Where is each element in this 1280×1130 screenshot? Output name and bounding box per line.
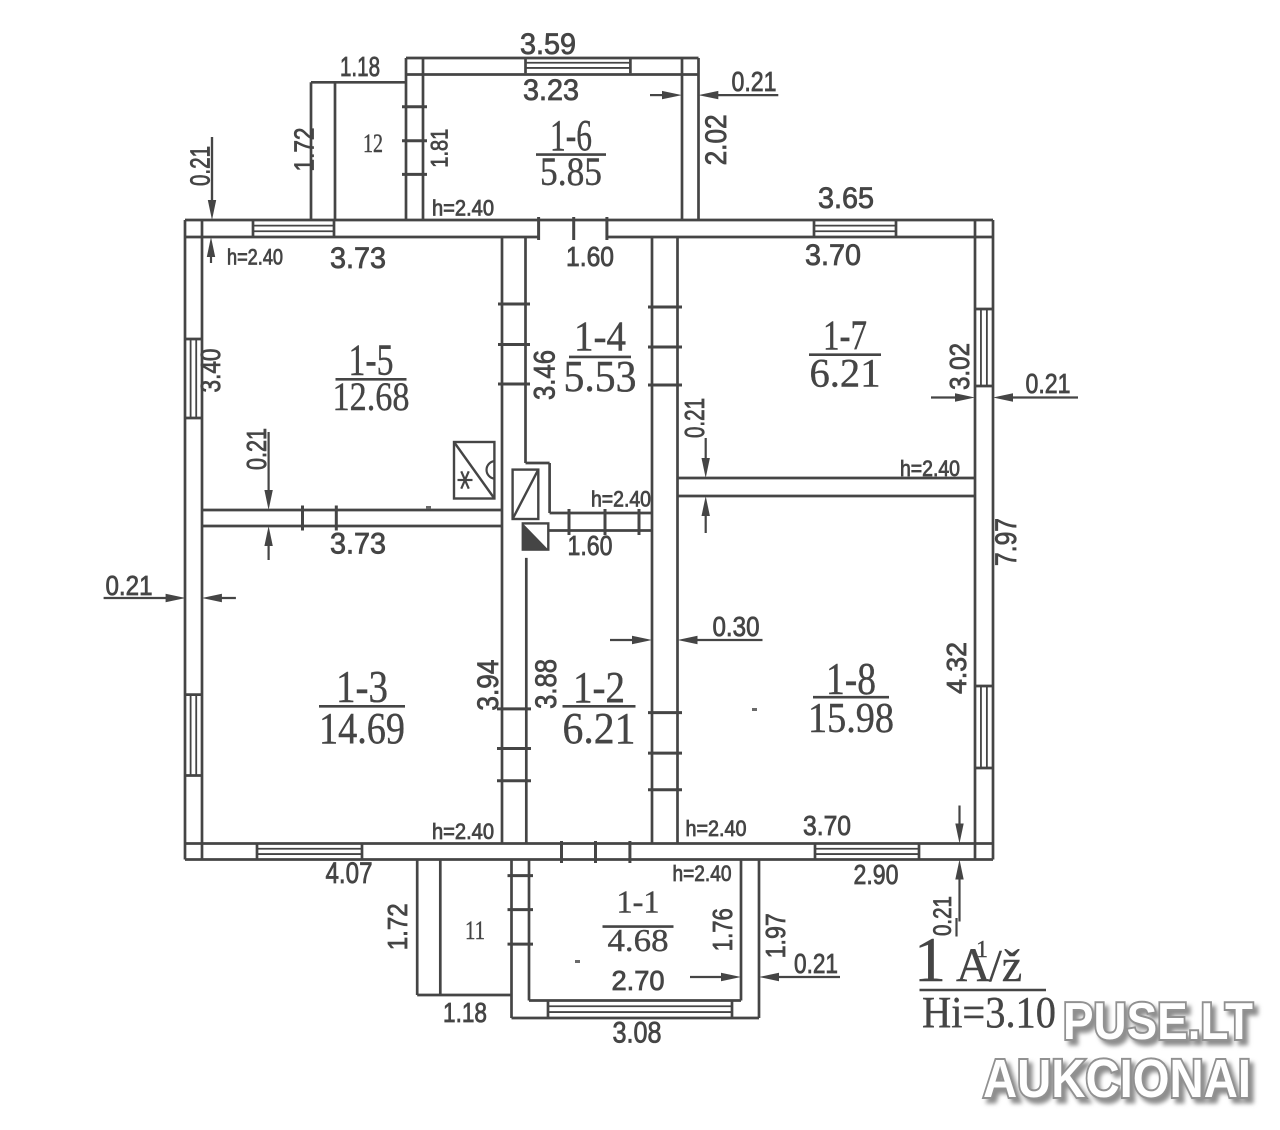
- legend 1 A1/z fraction: [914, 924, 1056, 1037]
- door ticks 1-1 in south wall: [562, 841, 630, 863]
- dim h=2.40 room1-7: [900, 456, 960, 481]
- svg-text:12.68: 12.68: [333, 374, 410, 419]
- door ticks wall 1-4/1-7: [648, 307, 682, 385]
- room 1-7 label: [809, 313, 881, 395]
- dim 3.70 room1-8 south: [803, 810, 851, 841]
- label 12 porch: [363, 129, 383, 158]
- svg-text:1-1: 1-1: [617, 884, 660, 920]
- dim 1.60 room1-2: [568, 530, 613, 561]
- label 11 porch: [465, 916, 485, 945]
- window west lower: [185, 695, 202, 776]
- svg-text:0.21: 0.21: [241, 428, 272, 470]
- dim 3.40 west: [195, 349, 226, 393]
- svg-text:h=2.40: h=2.40: [227, 245, 283, 270]
- wall right (house east wall): [975, 220, 993, 860]
- dim 0.21 top-left: [185, 137, 217, 220]
- svg-text:4.07: 4.07: [326, 857, 373, 890]
- svg-text:3.40: 3.40: [195, 349, 226, 393]
- svg-text:5.53: 5.53: [564, 352, 637, 401]
- stove in 1-5: [454, 442, 494, 499]
- wall niche nub: [526, 462, 550, 465]
- watermark PUSE.LT: [1063, 993, 1253, 1051]
- dim 2.02: [700, 114, 733, 165]
- wall room 1-6 north: [406, 58, 699, 75]
- svg-text:1.81: 1.81: [427, 129, 454, 168]
- partition 1-5/1-3: [202, 510, 502, 526]
- wall 1-4 west line upper: [524, 237, 527, 463]
- door opening 1-6 to 1-4: [540, 235, 607, 240]
- wall mid-west line: [501, 237, 504, 844]
- wall left outer (house west wall): [185, 220, 202, 860]
- room 1-4 label: [564, 314, 637, 401]
- svg-text:14.69: 14.69: [319, 704, 405, 753]
- room 1-5 label: [333, 336, 410, 420]
- svg-text:0.30: 0.30: [713, 611, 760, 642]
- svg-text:0.21: 0.21: [185, 146, 216, 186]
- wall room 1-6 west: [406, 58, 423, 220]
- porch 11 west wall: [417, 860, 440, 996]
- svg-text:h=2.40: h=2.40: [900, 456, 960, 481]
- door ticks room 1-1 west wall: [508, 876, 534, 945]
- wall bottom (house south wall): [185, 844, 993, 860]
- dim 0.21 room1-5: [241, 428, 273, 560]
- svg-text:15.98: 15.98: [808, 696, 894, 742]
- dim 4.07 south: [326, 857, 373, 890]
- svg-text:1.76: 1.76: [707, 908, 738, 951]
- flue black triangle: [523, 523, 549, 549]
- window north-west (x253-334): [253, 220, 334, 237]
- dim 0.21 room1-6 east: [650, 66, 778, 99]
- svg-text:7.97: 7.97: [990, 518, 1023, 566]
- svg-text:2.70: 2.70: [612, 965, 665, 996]
- svg-text:11: 11: [465, 916, 485, 945]
- watermark AUKCIONAI: [983, 1049, 1251, 1109]
- room 1-1 west wall: [512, 860, 530, 1019]
- svg-text:5.85: 5.85: [540, 149, 602, 194]
- porch 12 west wall: [311, 82, 335, 220]
- window west upper (3.40): [185, 339, 202, 418]
- svg-text:3.73: 3.73: [330, 528, 386, 561]
- svg-text:Hi=3.10: Hi=3.10: [922, 988, 1056, 1037]
- tiny speck room1-8: [752, 708, 757, 711]
- dim 0.21 west-mid: [104, 570, 236, 602]
- dim 3.59: [520, 28, 576, 61]
- dim 3.70 room1-7: [805, 239, 861, 272]
- dim 3.02 east: [944, 343, 975, 390]
- svg-text:3.02: 3.02: [944, 343, 975, 390]
- svg-text:PUSE.LT: PUSE.LT: [1063, 993, 1253, 1051]
- partition 1-7/1-8: [678, 478, 976, 496]
- window east upper (3.02): [975, 309, 993, 386]
- dim 1.81: [427, 129, 454, 168]
- chimney flue: [513, 470, 539, 519]
- room 1-2 label: [563, 663, 636, 753]
- dim 0.21 room1-1 east: [690, 948, 840, 981]
- wall 1-2 west line lower: [525, 558, 528, 844]
- wall niche east line: [548, 463, 551, 513]
- svg-text:/ž: /ž: [989, 940, 1022, 991]
- dim 3.23: [523, 74, 579, 107]
- dim 4.32 east: [941, 642, 972, 694]
- dim 1.76 room1-1: [707, 908, 738, 951]
- svg-text:3.70: 3.70: [803, 810, 851, 841]
- svg-text:3.65: 3.65: [818, 182, 874, 215]
- door ticks room 1-6 west wall: [402, 107, 427, 175]
- svg-text:h=2.40: h=2.40: [432, 196, 494, 221]
- door ticks 1-6/1-4 in north wall: [539, 217, 607, 240]
- dim h=2.40 room1-1: [673, 861, 732, 886]
- dim 2.70 room1-1: [612, 965, 665, 996]
- window room 1-6 north: [526, 58, 631, 74]
- door ticks partition 1-4/1-2: [569, 509, 639, 535]
- svg-text:3.88: 3.88: [530, 659, 563, 709]
- svg-text:0.21: 0.21: [794, 948, 838, 979]
- svg-text:1.60: 1.60: [566, 241, 614, 272]
- svg-text:3.94: 3.94: [472, 660, 505, 711]
- room 1-1 south wall: [512, 1001, 760, 1019]
- svg-text:3.46: 3.46: [529, 350, 562, 400]
- svg-text:1.72: 1.72: [382, 903, 413, 950]
- dim 0.21 room1-7: [679, 398, 710, 533]
- svg-text:2.90: 2.90: [854, 859, 899, 890]
- svg-text:1.72: 1.72: [289, 128, 320, 172]
- door ticks wall 1-3/1-2: [497, 709, 531, 781]
- door ticks partition 1-5/1-3: [303, 506, 337, 531]
- svg-text:0.21: 0.21: [106, 570, 153, 601]
- svg-text:0.21: 0.21: [679, 398, 710, 438]
- svg-text:6.21: 6.21: [810, 350, 881, 395]
- dim h=2.40 room1-5: [227, 245, 283, 270]
- svg-text:3.70: 3.70: [805, 239, 861, 272]
- svg-text:3.59: 3.59: [520, 28, 576, 61]
- dim h=2.40 room1-4: [591, 487, 651, 512]
- window room 1-1 south: [548, 1001, 732, 1019]
- dim 7.97 east: [990, 518, 1023, 566]
- dim 3.94 room1-3: [472, 660, 505, 711]
- window north-east (x814-896): [814, 220, 896, 237]
- porch 12 north line: [311, 81, 406, 84]
- svg-text:3.08: 3.08: [613, 1017, 662, 1050]
- door ticks wall 1-2/1-8: [648, 713, 682, 790]
- dim 2.90 south: [854, 859, 899, 890]
- room 1-1 east wall: [741, 860, 759, 1019]
- svg-text:3.73: 3.73: [330, 242, 386, 275]
- svg-text:1.18: 1.18: [340, 51, 380, 82]
- svg-text:4.32: 4.32: [941, 642, 972, 694]
- svg-text:0.21: 0.21: [732, 66, 777, 97]
- svg-text:3.23: 3.23: [523, 74, 579, 107]
- partition 1-4/1-2: [549, 513, 652, 531]
- dim 3.08 south: [613, 1017, 662, 1050]
- wall mid-east (1-4,1-2 | 1-7,1-8): [652, 237, 678, 844]
- dim h=2.40 room1-6: [432, 196, 494, 221]
- dim h=2.40 room1-8: [686, 816, 747, 841]
- room 1-3 label: [319, 661, 405, 753]
- dim 3.65: [818, 182, 874, 215]
- wall room 1-6 east: [682, 58, 699, 220]
- svg-text:1.97: 1.97: [760, 913, 791, 958]
- dim 3.46 room1-4: [529, 350, 562, 400]
- svg-text:h=2.40: h=2.40: [673, 861, 732, 886]
- dim 0.21 east-side: [931, 368, 1078, 402]
- dim h=2.40 room1-3: [432, 819, 494, 844]
- svg-text:4.68: 4.68: [608, 922, 669, 958]
- dim 1.97: [760, 913, 791, 958]
- dim 1.18 top: [340, 51, 380, 82]
- window east lower (4.32): [975, 686, 993, 768]
- dim 0.21 south-east: [929, 806, 964, 937]
- tiny speck room1-5: [426, 506, 431, 509]
- dim 1.18 porch11: [443, 997, 487, 1028]
- svg-text:1: 1: [976, 937, 988, 963]
- dim 1.72 porch12: [289, 128, 320, 172]
- svg-text:1.18: 1.18: [443, 997, 487, 1028]
- tiny speck room1-1: [575, 960, 580, 963]
- wall top (house north wall): [185, 220, 993, 237]
- dim 3.88 room1-2: [530, 659, 563, 709]
- door ticks wall 1-5/1-4: [498, 304, 530, 384]
- svg-text:6.21: 6.21: [563, 704, 636, 753]
- room 1-8 label: [808, 653, 894, 742]
- dim 1.72 porch11: [382, 903, 413, 950]
- porch 11 south line: [417, 994, 511, 997]
- window south-east (2.90): [815, 844, 919, 860]
- dim 0.21 top-left inner arrow: [207, 237, 215, 263]
- svg-text:2.02: 2.02: [700, 114, 733, 165]
- svg-text:1.60: 1.60: [568, 530, 613, 561]
- room 1-6 label: [536, 111, 606, 194]
- dim 0.30 room1-8: [610, 611, 763, 644]
- room 1-1 label: [603, 884, 674, 959]
- window south-west (4.07): [257, 844, 362, 860]
- svg-text:1: 1: [914, 924, 946, 995]
- svg-text:0.21: 0.21: [1026, 368, 1071, 399]
- svg-text:h=2.40: h=2.40: [432, 819, 494, 844]
- svg-text:AUKCIONAI: AUKCIONAI: [983, 1049, 1251, 1109]
- svg-text:12: 12: [363, 129, 383, 158]
- dim 3.73 room1-5: [330, 242, 386, 275]
- svg-text:h=2.40: h=2.40: [591, 487, 651, 512]
- dim 1.60 room1-4: [566, 241, 614, 272]
- svg-text:h=2.40: h=2.40: [686, 816, 747, 841]
- dim 3.73 room1-3: [330, 528, 386, 561]
